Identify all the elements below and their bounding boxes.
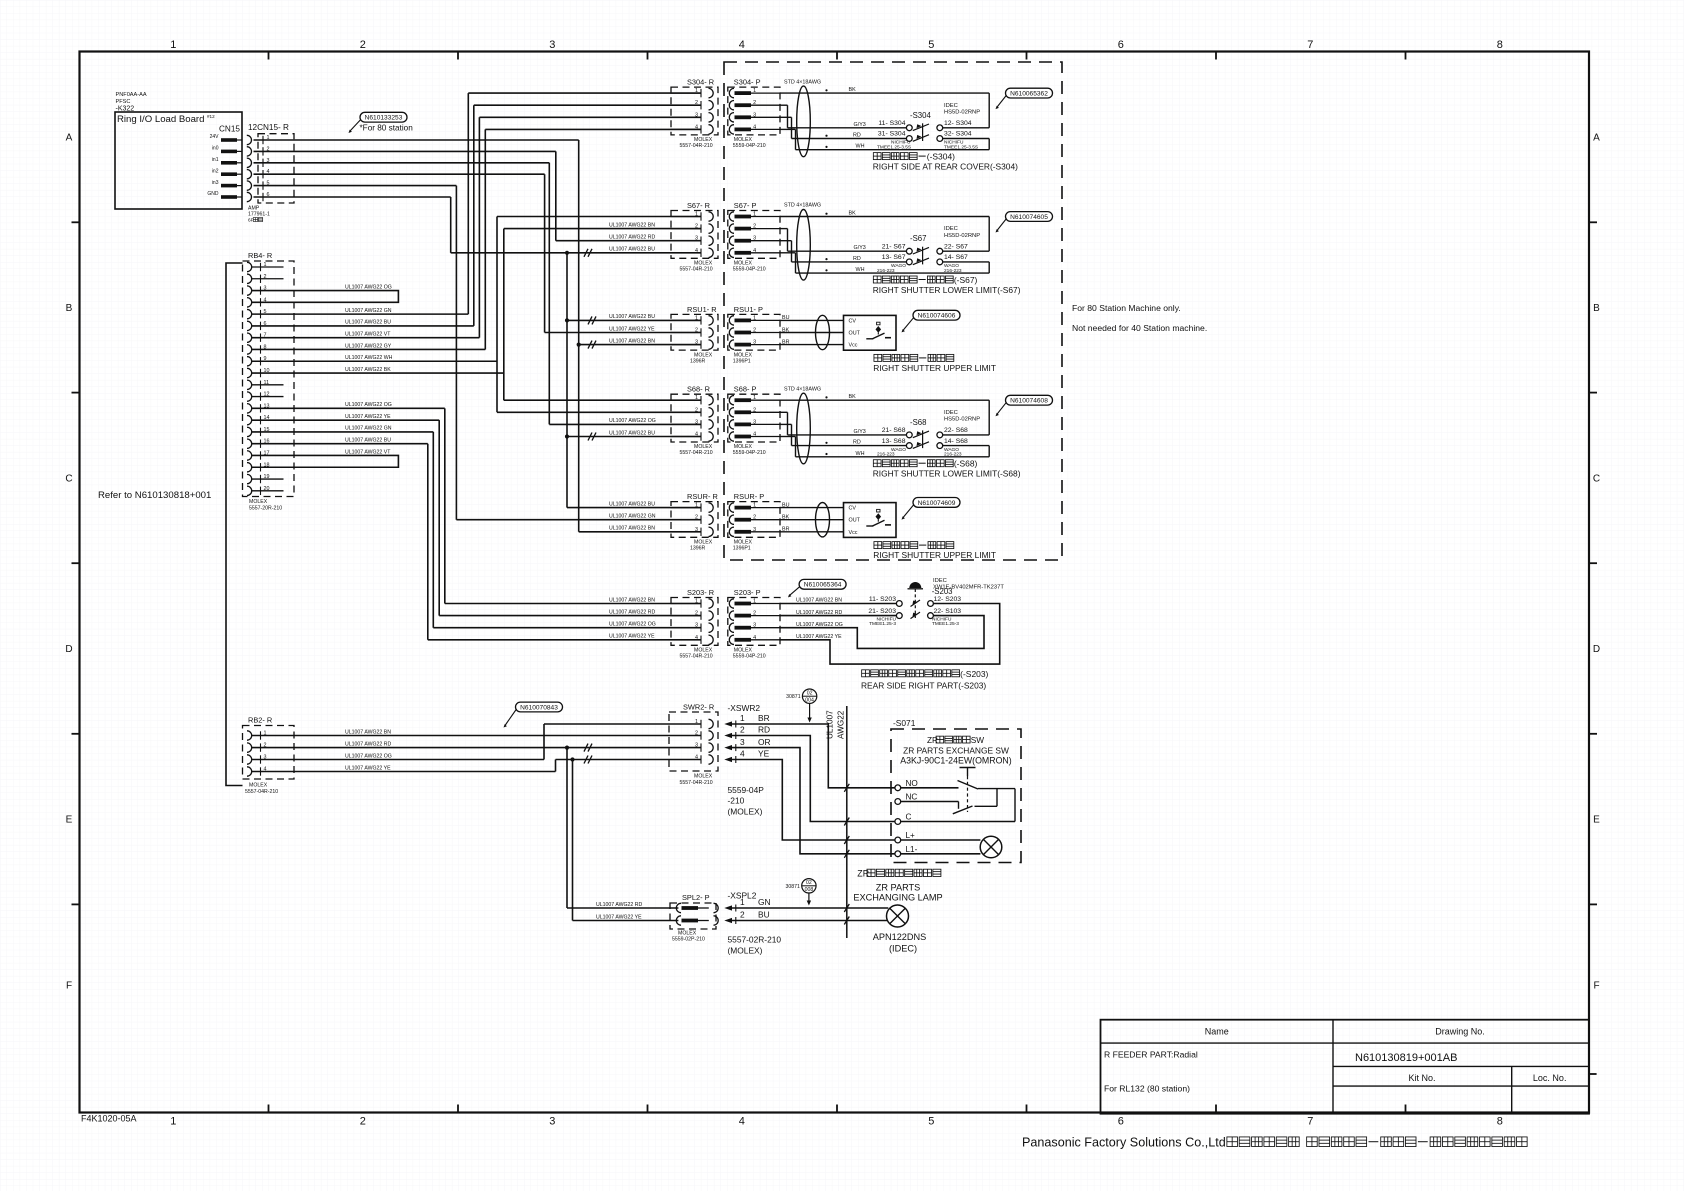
svg-text:5557-04R-210: 5557-04R-210 — [680, 780, 713, 786]
svg-text:F: F — [66, 981, 72, 992]
svg-text:TMEE1.25-3.5S: TMEE1.25-3.5S — [877, 144, 911, 150]
svg-text:TMEE1.25-3.5S: TMEE1.25-3.5S — [944, 144, 978, 150]
svg-text:MOLEX: MOLEX — [249, 783, 268, 789]
svg-text:TMEE1.25-3: TMEE1.25-3 — [932, 621, 959, 627]
svg-text:RD: RD — [758, 725, 770, 735]
svg-text:F: F — [1593, 981, 1599, 992]
svg-text:N610065364: N610065364 — [804, 582, 842, 589]
svg-text:Vcc: Vcc — [849, 343, 858, 349]
svg-text:7: 7 — [1307, 39, 1313, 51]
svg-text:S68- R: S68- R — [687, 385, 710, 394]
svg-text:Not needed for 40 Station mach: Not needed for 40 Station machine. — [1072, 323, 1207, 333]
svg-text:30871: 30871 — [785, 884, 800, 890]
svg-text:UL1007 AWG22 YE: UL1007 AWG22 YE — [609, 634, 655, 640]
svg-text:RIGHT SHUTTER UPPER LIMIT: RIGHT SHUTTER UPPER LIMIT — [873, 363, 996, 373]
svg-text:UL1007 AWG22 BU: UL1007 AWG22 BU — [609, 501, 655, 507]
svg-text:UL1007 AWG22 RD: UL1007 AWG22 RD — [609, 235, 655, 241]
svg-text:C: C — [65, 474, 72, 485]
svg-text:4: 4 — [695, 755, 698, 761]
svg-text:(-S304): (-S304) — [927, 152, 955, 162]
svg-text:OUT: OUT — [849, 518, 861, 524]
svg-text:216-223: 216-223 — [944, 452, 962, 458]
svg-text:3: 3 — [695, 236, 698, 242]
svg-text:UL1007 AWG22 VT: UL1007 AWG22 VT — [345, 331, 391, 337]
svg-text:UL1007 AWG22 VT: UL1007 AWG22 VT — [345, 449, 391, 455]
svg-text:UL1007 AWG22 BN: UL1007 AWG22 BN — [609, 338, 655, 344]
svg-text:RIGHT SHUTTER UPPER LIMIT: RIGHT SHUTTER UPPER LIMIT — [873, 550, 996, 560]
svg-text:UL1007 AWG22 RD: UL1007 AWG22 RD — [596, 902, 642, 908]
svg-text:SWR2- R: SWR2- R — [683, 703, 714, 712]
svg-text:1: 1 — [740, 897, 745, 907]
svg-text:7: 7 — [1307, 1116, 1313, 1128]
svg-text:Panasonic Factory Solutions Co: Panasonic Factory Solutions Co.,Ltd — [1022, 1136, 1226, 1150]
svg-text:22- S103: 22- S103 — [934, 608, 962, 615]
svg-text:3: 3 — [695, 527, 698, 533]
svg-text:004: 004 — [805, 697, 814, 703]
svg-text:-K322: -K322 — [116, 106, 135, 113]
svg-text:3: 3 — [695, 419, 698, 425]
svg-text:NC: NC — [906, 793, 918, 802]
svg-text:1396P1: 1396P1 — [733, 546, 751, 552]
svg-text:UL1007 AWG22 BN: UL1007 AWG22 BN — [345, 729, 391, 735]
svg-text:UL1007 AWG22 YE: UL1007 AWG22 YE — [609, 326, 655, 332]
svg-text:SPL2- P: SPL2- P — [682, 893, 710, 902]
svg-text:UL1007 AWG22 RD: UL1007 AWG22 RD — [345, 741, 391, 747]
svg-text:L+: L+ — [906, 831, 916, 840]
svg-text:in3: in3 — [212, 180, 219, 186]
svg-text:UL1007 AWG22 OG: UL1007 AWG22 OG — [609, 622, 656, 628]
svg-text:STD 4×18AWG: STD 4×18AWG — [784, 79, 821, 85]
svg-text:N610074608: N610074608 — [1010, 398, 1048, 405]
svg-text:E: E — [1593, 815, 1600, 826]
svg-text:E: E — [66, 815, 73, 826]
svg-text:in1: in1 — [212, 157, 219, 163]
svg-text:UL1007 AWG22 BK: UL1007 AWG22 BK — [345, 367, 391, 373]
svg-text:216-223: 216-223 — [944, 268, 962, 274]
svg-text:5557-04R-210: 5557-04R-210 — [680, 267, 713, 273]
svg-text:N610065362: N610065362 — [1010, 91, 1048, 98]
svg-text:RIGHT SIDE AT REAR COVER(-S304: RIGHT SIDE AT REAR COVER(-S304) — [873, 162, 1018, 172]
svg-text:5557-04R-210: 5557-04R-210 — [245, 789, 278, 795]
svg-text:UL1007 AWG22 BN: UL1007 AWG22 BN — [609, 222, 655, 228]
svg-text:4: 4 — [695, 635, 698, 641]
svg-text:1396R: 1396R — [690, 358, 706, 364]
svg-text:2: 2 — [695, 224, 698, 230]
svg-text:1: 1 — [170, 1116, 176, 1128]
svg-text:N610130819+001AB: N610130819+001AB — [1355, 1052, 1457, 1064]
svg-text:APN122DNS: APN122DNS — [873, 932, 927, 942]
svg-text:A: A — [1593, 133, 1600, 144]
svg-text:S304- R: S304- R — [687, 78, 714, 87]
svg-text:1: 1 — [170, 39, 176, 51]
svg-text:F4K1020-05A: F4K1020-05A — [81, 1114, 137, 1124]
svg-text:UL1007 AWG22 WH: UL1007 AWG22 WH — [345, 355, 393, 361]
svg-text:IDEC: IDEC — [933, 578, 947, 584]
svg-text:Name: Name — [1205, 1027, 1229, 1037]
svg-text:177961-1: 177961-1 — [248, 212, 270, 218]
svg-text:3: 3 — [549, 1116, 555, 1128]
svg-text:UL1007 AWG22 BU: UL1007 AWG22 BU — [345, 438, 391, 444]
svg-text:3: 3 — [695, 623, 698, 629]
svg-text:32- S304: 32- S304 — [944, 131, 972, 138]
svg-text:2: 2 — [695, 515, 698, 521]
svg-text:IDEC: IDEC — [944, 410, 958, 416]
svg-text:L1-: L1- — [906, 845, 918, 854]
svg-text:HS5D-02RNP: HS5D-02RNP — [944, 109, 980, 115]
svg-text:RIGHT SHUTTER LOWER LIMIT(-S67: RIGHT SHUTTER LOWER LIMIT(-S67) — [873, 285, 1021, 295]
svg-text:4: 4 — [739, 39, 745, 51]
svg-text:UL1007 AWG22 RD: UL1007 AWG22 RD — [609, 609, 655, 615]
svg-text:13- S67: 13- S67 — [882, 254, 906, 261]
svg-text:1396P1: 1396P1 — [733, 358, 751, 364]
svg-text:STD 4×18AWG: STD 4×18AWG — [784, 386, 821, 392]
svg-text:BK: BK — [849, 87, 857, 93]
svg-text:4: 4 — [739, 1116, 745, 1128]
svg-text:CV: CV — [849, 506, 857, 512]
svg-text:5557-04R-210: 5557-04R-210 — [680, 654, 713, 660]
svg-text:RD: RD — [853, 256, 861, 262]
svg-text:2: 2 — [740, 725, 745, 735]
svg-text:Kit No.: Kit No. — [1408, 1073, 1435, 1083]
svg-text:S67- R: S67- R — [687, 201, 710, 210]
svg-text:14- S68: 14- S68 — [944, 438, 968, 445]
svg-text:1: 1 — [695, 395, 698, 401]
svg-text:BR: BR — [782, 339, 790, 345]
svg-text:UL1007 AWG22 BU: UL1007 AWG22 BU — [609, 430, 655, 436]
svg-text:24V: 24V — [210, 134, 220, 140]
svg-text:YE: YE — [758, 749, 770, 759]
svg-text:C: C — [1593, 474, 1600, 485]
svg-text:RSU1- P: RSU1- P — [734, 305, 763, 314]
svg-text:216-223: 216-223 — [877, 268, 895, 274]
svg-text:008: 008 — [805, 887, 814, 893]
svg-text:(-S203): (-S203) — [960, 669, 988, 679]
svg-text:N610074605: N610074605 — [1010, 214, 1048, 221]
svg-text:G/Y3: G/Y3 — [854, 245, 866, 251]
svg-text:N610074609: N610074609 — [918, 500, 956, 507]
svg-text:2: 2 — [360, 39, 366, 51]
svg-text:Vcc: Vcc — [849, 530, 858, 536]
svg-text:6: 6 — [1118, 39, 1124, 51]
svg-text:2: 2 — [695, 611, 698, 617]
svg-text:S304- P: S304- P — [734, 78, 761, 87]
svg-text:RB4- R: RB4- R — [248, 251, 272, 260]
svg-text:Ring I/O Load Board: Ring I/O Load Board — [117, 114, 204, 125]
svg-text:BU: BU — [782, 502, 790, 508]
svg-text:BU: BU — [782, 315, 790, 321]
svg-text:12CN15- R: 12CN15- R — [248, 123, 289, 132]
svg-text:N610133253: N610133253 — [365, 115, 403, 122]
svg-text:B: B — [66, 303, 73, 314]
svg-text:(MOLEX): (MOLEX) — [728, 807, 763, 817]
svg-text:UL1007: UL1007 — [826, 710, 835, 739]
svg-text:in2: in2 — [212, 168, 219, 174]
svg-text:PNF0AA-AA: PNF0AA-AA — [116, 92, 147, 98]
svg-text:RD: RD — [853, 440, 861, 446]
svg-text:WH: WH — [856, 267, 865, 273]
svg-text:S68- P: S68- P — [734, 385, 757, 394]
svg-text:21- S203: 21- S203 — [868, 608, 896, 615]
svg-text:GND: GND — [207, 191, 219, 197]
svg-text:UL1007 AWG22 BU: UL1007 AWG22 BU — [609, 247, 655, 253]
svg-text:3: 3 — [695, 743, 698, 749]
svg-text:3: 3 — [695, 340, 698, 346]
svg-text:5559-04P-210: 5559-04P-210 — [733, 267, 766, 273]
svg-text:CV: CV — [849, 318, 857, 324]
svg-text:UL1007 AWG22 YE: UL1007 AWG22 YE — [345, 414, 391, 420]
svg-text:-S67: -S67 — [910, 234, 926, 243]
svg-text:4: 4 — [695, 124, 698, 130]
svg-text:UL1007 AWG22 OG: UL1007 AWG22 OG — [345, 284, 392, 290]
svg-text:02: 02 — [806, 880, 812, 886]
svg-text:UL1007 AWG22 GY: UL1007 AWG22 GY — [345, 343, 392, 349]
svg-text:(-S67): (-S67) — [954, 275, 978, 285]
svg-text:1: 1 — [695, 719, 698, 725]
svg-text:WH: WH — [856, 144, 865, 150]
svg-text:PFSC: PFSC — [116, 99, 131, 105]
svg-text:WH: WH — [856, 451, 865, 457]
svg-text:21- S67: 21- S67 — [882, 243, 906, 250]
svg-text:RB2- R: RB2- R — [248, 716, 272, 725]
svg-text:S203- P: S203- P — [734, 588, 761, 597]
svg-text:UL1007 AWG22 OG: UL1007 AWG22 OG — [345, 753, 392, 759]
svg-text:Refer to N610130818+001: Refer to N610130818+001 — [98, 490, 211, 501]
svg-text:2: 2 — [695, 731, 698, 737]
svg-text:8: 8 — [1497, 1116, 1503, 1128]
svg-text:5557-20R-210: 5557-20R-210 — [249, 505, 282, 511]
svg-text:5557-04R-210: 5557-04R-210 — [680, 450, 713, 456]
svg-text:6: 6 — [1118, 1116, 1124, 1128]
svg-text:1: 1 — [695, 315, 698, 321]
svg-text:14- S67: 14- S67 — [944, 254, 968, 261]
svg-text:in0: in0 — [212, 146, 219, 152]
svg-text:MOLEX: MOLEX — [694, 774, 713, 780]
svg-text:2: 2 — [740, 910, 745, 920]
svg-text:BR: BR — [758, 713, 770, 723]
svg-text:-S071: -S071 — [893, 718, 916, 728]
svg-text:IDEC: IDEC — [944, 226, 958, 232]
svg-text:4: 4 — [695, 432, 698, 438]
svg-text:UL1007 AWG22 BN: UL1007 AWG22 BN — [609, 597, 655, 603]
svg-text:11- S203: 11- S203 — [869, 596, 896, 603]
svg-text:RSUR- R: RSUR- R — [687, 492, 718, 501]
svg-text:For 80 Station Machine only.: For 80 Station Machine only. — [1072, 303, 1181, 313]
svg-text:(MOLEX): (MOLEX) — [728, 946, 763, 956]
svg-text:IDEC: IDEC — [944, 103, 958, 109]
svg-text:5: 5 — [928, 1116, 934, 1128]
svg-text:GN: GN — [758, 897, 771, 907]
svg-text:(IDEC): (IDEC) — [889, 944, 917, 954]
svg-text:02: 02 — [807, 690, 813, 696]
svg-text:A: A — [66, 133, 73, 144]
svg-text:ZR PARTS: ZR PARTS — [876, 883, 921, 893]
svg-text:22- S67: 22- S67 — [944, 243, 968, 250]
svg-text:STD 4×18AWG: STD 4×18AWG — [784, 203, 821, 209]
svg-text:12- S304: 12- S304 — [944, 120, 972, 127]
svg-text:RSUR- P: RSUR- P — [734, 492, 764, 501]
svg-text:BU: BU — [758, 910, 770, 920]
svg-text:G/Y3: G/Y3 — [854, 122, 866, 128]
svg-text:2: 2 — [695, 100, 698, 106]
svg-text:EXCHANGING LAMP: EXCHANGING LAMP — [853, 893, 942, 903]
svg-text:N610074606: N610074606 — [918, 313, 956, 320]
svg-text:2: 2 — [695, 407, 698, 413]
svg-text:4: 4 — [695, 248, 698, 254]
svg-text:1: 1 — [695, 503, 698, 509]
svg-text:-210: -210 — [728, 796, 745, 806]
svg-text:3: 3 — [695, 112, 698, 118]
svg-text:1: 1 — [740, 713, 745, 723]
svg-text:21- S68: 21- S68 — [882, 427, 906, 434]
svg-text:13- S68: 13- S68 — [882, 438, 906, 445]
svg-text:TMEE1.25-3: TMEE1.25-3 — [869, 621, 896, 627]
svg-text:12- S203: 12- S203 — [934, 596, 962, 603]
svg-text:ZR PARTS EXCHANGE SW: ZR PARTS EXCHANGE SW — [903, 746, 1009, 756]
svg-text:OUT: OUT — [849, 331, 861, 337]
svg-text:A3KJ-90C1-24EW(OMRON): A3KJ-90C1-24EW(OMRON) — [900, 756, 1012, 766]
svg-text:5559-04P-210: 5559-04P-210 — [733, 143, 766, 149]
svg-text:-XSWR2: -XSWR2 — [728, 703, 761, 713]
svg-text:Loc. No.: Loc. No. — [1533, 1073, 1567, 1083]
svg-text:UL1007 AWG22 YE: UL1007 AWG22 YE — [345, 765, 391, 771]
svg-text:BK: BK — [849, 211, 857, 217]
svg-text:BK: BK — [782, 515, 790, 521]
svg-text:RSU1- R: RSU1- R — [687, 305, 717, 314]
svg-text:R FEEDER PART:Radial: R FEEDER PART:Radial — [1104, 1050, 1198, 1060]
svg-text:Drawing No.: Drawing No. — [1435, 1027, 1485, 1037]
svg-text:30871: 30871 — [786, 694, 801, 700]
svg-text:31- S304: 31- S304 — [878, 131, 906, 138]
svg-text:1: 1 — [695, 88, 698, 94]
svg-text:HS5D-02RNP: HS5D-02RNP — [944, 417, 980, 423]
svg-text:D: D — [1593, 644, 1600, 655]
svg-text:For RL132 (80 station): For RL132 (80 station) — [1104, 1084, 1190, 1094]
svg-text:UL1007 AWG22 BU: UL1007 AWG22 BU — [609, 314, 655, 320]
svg-text:BR: BR — [782, 527, 790, 533]
svg-text:-S203: -S203 — [932, 587, 953, 596]
svg-text:UL1007 AWG22 BU: UL1007 AWG22 BU — [345, 320, 391, 326]
svg-text:UL1007 AWG22 BN: UL1007 AWG22 BN — [609, 526, 655, 532]
svg-text:N610070843: N610070843 — [520, 704, 558, 711]
svg-text:5559-02P-210: 5559-02P-210 — [672, 937, 705, 943]
svg-text:RIGHT SHUTTER LOWER LIMIT(-S68: RIGHT SHUTTER LOWER LIMIT(-S68) — [873, 469, 1021, 479]
svg-text:3: 3 — [549, 39, 555, 51]
svg-text:(-S68): (-S68) — [954, 459, 978, 469]
svg-text:UL1007 AWG22 OG: UL1007 AWG22 OG — [345, 402, 392, 408]
svg-text:SW: SW — [971, 736, 985, 745]
svg-text:UL1007 AWG22 GN: UL1007 AWG22 GN — [345, 308, 392, 314]
svg-text:5557-02R-210: 5557-02R-210 — [728, 935, 782, 945]
svg-text:5559-04P-210: 5559-04P-210 — [733, 450, 766, 456]
svg-text:2: 2 — [360, 1116, 366, 1128]
svg-text:BK: BK — [849, 394, 857, 400]
svg-text:5559-04P-210: 5559-04P-210 — [733, 654, 766, 660]
svg-text:11- S304: 11- S304 — [878, 120, 905, 127]
svg-text:OR: OR — [758, 737, 771, 747]
svg-text:5557-04R-210: 5557-04R-210 — [680, 143, 713, 149]
svg-text:8: 8 — [1497, 39, 1503, 51]
svg-text:D: D — [65, 644, 72, 655]
svg-text:4: 4 — [740, 749, 745, 759]
svg-text:CN15: CN15 — [219, 125, 240, 134]
svg-text:2: 2 — [695, 328, 698, 334]
svg-text:22- S68: 22- S68 — [944, 427, 968, 434]
svg-text:UL1007 AWG22 GN: UL1007 AWG22 GN — [609, 514, 656, 520]
svg-text:S67- P: S67- P — [734, 201, 757, 210]
svg-text:UL1007 AWG22 YE: UL1007 AWG22 YE — [596, 914, 642, 920]
svg-text:5559-04P: 5559-04P — [728, 785, 765, 795]
svg-text:C: C — [906, 813, 912, 822]
svg-text:MOLEX: MOLEX — [249, 499, 268, 505]
svg-text:B: B — [1593, 303, 1600, 314]
svg-text:S203- R: S203- R — [687, 588, 714, 597]
svg-text:RD: RD — [853, 133, 861, 139]
svg-text:*For 80 station: *For 80 station — [360, 124, 414, 133]
svg-text:BK: BK — [782, 327, 790, 333]
svg-text:5: 5 — [928, 39, 934, 51]
svg-text:-S68: -S68 — [910, 418, 926, 427]
svg-text:#12: #12 — [207, 114, 215, 119]
svg-text:-S304: -S304 — [910, 111, 931, 120]
svg-text:1396R: 1396R — [690, 546, 706, 552]
svg-text:3: 3 — [740, 737, 745, 747]
svg-text:1: 1 — [695, 212, 698, 218]
svg-text:1: 1 — [695, 599, 698, 605]
svg-text:G/Y3: G/Y3 — [854, 429, 866, 435]
svg-text:AWG22: AWG22 — [837, 710, 846, 739]
svg-text:NO: NO — [906, 779, 918, 788]
svg-text:UL1007 AWG22 OG: UL1007 AWG22 OG — [609, 418, 656, 424]
svg-text:REAR SIDE RIGHT PART(-S203): REAR SIDE RIGHT PART(-S203) — [861, 681, 986, 691]
svg-text:UL1007 AWG22 GN: UL1007 AWG22 GN — [345, 426, 392, 432]
svg-text:216-223: 216-223 — [877, 452, 895, 458]
svg-text:HS5D-02RNP: HS5D-02RNP — [944, 233, 980, 239]
